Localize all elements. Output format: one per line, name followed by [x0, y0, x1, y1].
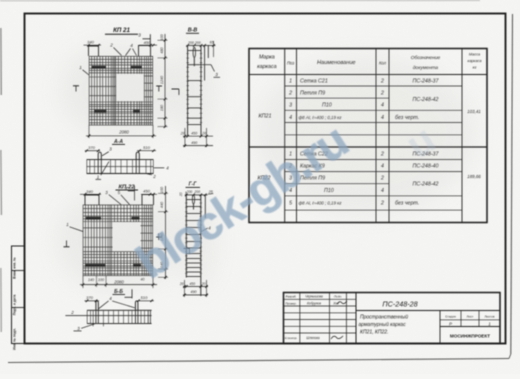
V-V bottom dims [180, 128, 213, 147]
KP21 right dimension chain [158, 33, 168, 128]
KP22 top left loop [85, 195, 99, 205]
left scan edge marks [0, 28, 2, 95]
section B-B label [113, 289, 126, 295]
KP21 bottom dim 2080 [86, 125, 156, 138]
KP22 right dimension chain [158, 186, 168, 279]
A-A dim 370 [85, 145, 100, 152]
V-V pos 3 leader [201, 65, 220, 78]
section V-V column [186, 46, 202, 137]
B-B strip [65, 310, 151, 326]
KP22 section mark B right [156, 234, 162, 241]
section A-A label [112, 139, 125, 145]
KP21 top right loop [139, 46, 151, 57]
G-G section mark left [184, 249, 190, 255]
KP22 bottom dims [80, 276, 157, 288]
A-A strip [87, 160, 154, 174]
KP21 mesh plan view [89, 56, 153, 125]
KP22 section mark B left [64, 241, 70, 247]
G-G offset bar [204, 195, 206, 218]
KP22 mesh plan view [83, 205, 153, 276]
KP22 pos 1 leader [66, 222, 83, 232]
specification table [249, 49, 487, 223]
A-A pos 4 leader [154, 165, 169, 170]
KP22 title [116, 184, 139, 190]
B-B loop 1 [96, 301, 98, 310]
G-G top dims [185, 190, 214, 196]
V-V top dims 200 200 65 [186, 41, 215, 57]
paper bottom edge [8, 359, 509, 363]
KP21 top left loop [89, 46, 99, 56]
KP21 section mark A right [156, 86, 162, 92]
KP21 pos 3 leader [138, 33, 150, 46]
V-V section mark left [172, 89, 180, 95]
KP21 dim 340 [84, 40, 102, 47]
A-A dim 510 [137, 145, 156, 152]
toner wash [56, 35, 475, 292]
B-B dim 510 [137, 295, 154, 302]
KP21 pos 4 leader [126, 43, 137, 55]
KP21 dim 450 [139, 40, 157, 47]
KP22 pos 3 leader [105, 190, 121, 205]
KP22 pos 5 leader [118, 190, 130, 205]
B-B pos bracket [125, 289, 133, 298]
B-B pos 4 leader [99, 296, 135, 309]
V-V lifting loop [193, 47, 195, 66]
title block [284, 293, 501, 344]
G-G column [185, 195, 202, 296]
KP22 pos 4 leader [125, 186, 135, 201]
KP21 pos 2 leader [109, 42, 121, 55]
KP21 title [105, 27, 138, 34]
G-G lifting loop [192, 195, 194, 210]
G-G pos 4 leader [201, 226, 212, 232]
G-G bottom dims [179, 280, 208, 297]
KP22 dim 340 [80, 189, 101, 195]
A-A loop 1 [98, 152, 101, 159]
paper right edge [511, 14, 513, 354]
B-B pos 3 leader [74, 324, 95, 331]
B-B pos 2 label [70, 310, 74, 315]
watermark block-gb.ru [127, 114, 444, 289]
section V-V label [186, 28, 199, 34]
section G-G label [186, 182, 201, 188]
V-V offset bars [205, 46, 209, 81]
A-A pos 3 leader [102, 147, 112, 156]
KP22 top right loop [142, 195, 154, 206]
KP21 pos 1 leader [79, 65, 89, 75]
A-A pos 2 leader [147, 174, 157, 179]
KP21 section mark A left [73, 86, 79, 92]
B-B loop 2 [135, 301, 138, 310]
left margin stamp boxes [12, 246, 25, 350]
A-A pos 1 leader [96, 162, 110, 180]
top scan edge [0, 0, 480, 2]
B-B dim 370 [85, 295, 100, 302]
KP22 dim 450 [141, 188, 157, 195]
G-G left ext [185, 192, 187, 197]
A-A loop 2 [136, 152, 139, 159]
